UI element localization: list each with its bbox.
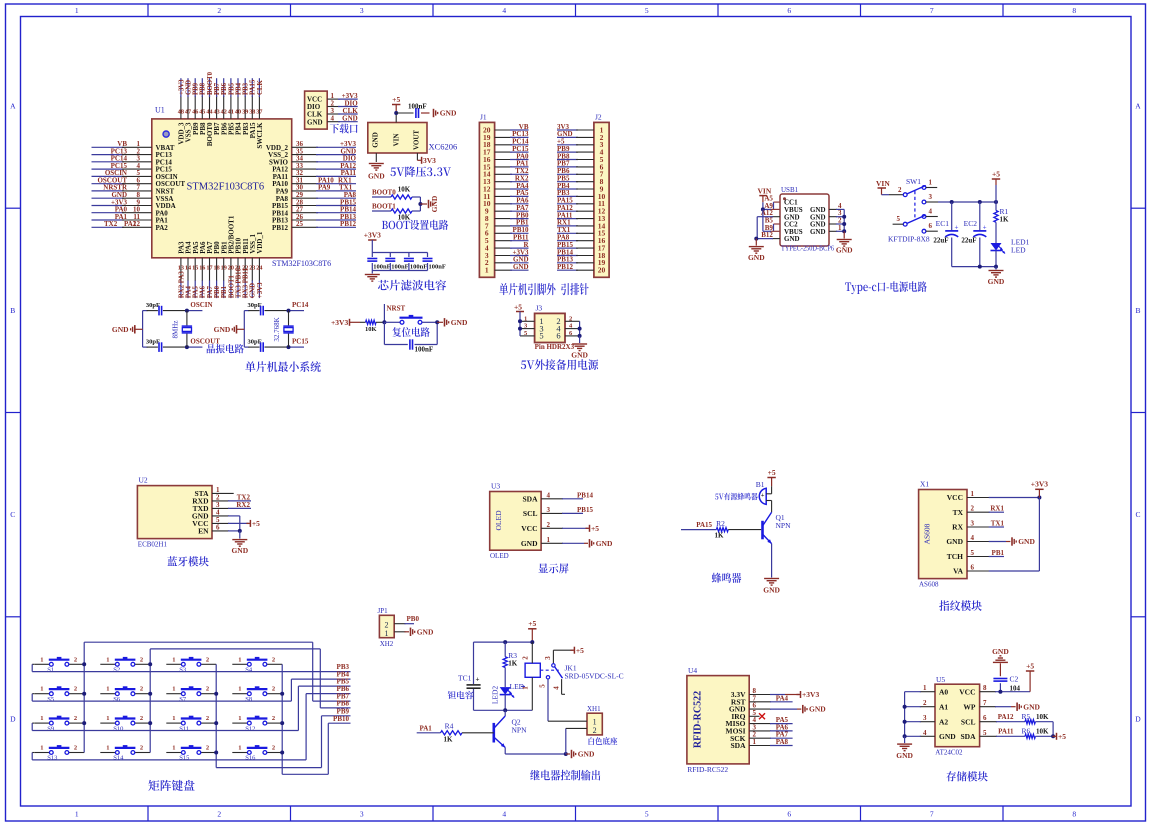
ground USB1 left	[748, 239, 765, 262]
ground typec	[988, 267, 1005, 286]
svg-text:5: 5	[539, 331, 543, 341]
svg-text:2: 2	[522, 656, 530, 660]
ground buzzer	[763, 544, 780, 595]
svg-text:2: 2	[272, 715, 275, 722]
svg-text:S11: S11	[179, 725, 189, 732]
svg-text:GND: GND	[596, 539, 613, 548]
U5 left pins 1-4	[905, 684, 935, 737]
svg-text:19: 19	[221, 265, 227, 272]
svg-text:GND: GND	[1023, 702, 1040, 711]
svg-text:PC14: PC14	[292, 301, 309, 309]
svg-text:PA6: PA6	[200, 286, 207, 299]
wire SW1 pin3 to rail	[938, 200, 998, 204]
USB1 pin B12 GND	[754, 231, 780, 241]
svg-text:S4: S4	[245, 667, 253, 674]
svg-text:6: 6	[787, 6, 791, 15]
USB1 pin B5 CC2	[765, 217, 780, 232]
svg-text:S13: S13	[47, 755, 57, 762]
U1 pin 28 PB15 (right)	[272, 198, 356, 210]
ground relay	[566, 750, 595, 759]
label 5V active buzzer	[715, 493, 758, 500]
svg-text:PB12: PB12	[340, 220, 356, 228]
svg-text:2: 2	[206, 715, 209, 722]
svg-text:XH1: XH1	[587, 705, 601, 713]
U1 pin 37 SWCLK (top)	[256, 78, 264, 148]
svg-text:B: B	[10, 306, 15, 315]
svg-text:+: +	[955, 224, 959, 232]
svg-text:+3V3: +3V3	[257, 282, 264, 298]
svg-text:2: 2	[206, 686, 209, 693]
U1 pin 10 PA0 (left)	[92, 206, 169, 218]
svg-text:PA11: PA11	[998, 728, 1014, 736]
IC X1 AS608 fingerprint	[919, 480, 967, 589]
svg-text:+5: +5	[392, 95, 400, 104]
svg-text:44: 44	[206, 109, 212, 116]
svg-text:TX: TX	[953, 508, 964, 517]
svg-text:23: 23	[249, 265, 255, 272]
U2 pin 5 VCC to +5	[212, 516, 260, 528]
J2 pin 14 net RX1	[557, 219, 606, 231]
J1 pin 20 net VB	[483, 123, 529, 135]
U1 pin 34 SWIO (right)	[269, 155, 357, 167]
svg-text:6: 6	[929, 222, 933, 230]
capacitor TC1 tantalum	[458, 642, 481, 710]
svg-text:41: 41	[228, 109, 234, 116]
ground crystal	[214, 325, 245, 334]
connector J3 Pin HDR2X3	[535, 304, 565, 343]
IC U5 AT24C02	[935, 675, 980, 757]
svg-text:2: 2	[206, 745, 209, 752]
svg-text:VCC: VCC	[947, 493, 963, 502]
svg-text:1: 1	[522, 686, 530, 690]
svg-text:JP1: JP1	[378, 607, 389, 615]
X1 pin 5 TCH net PB1	[967, 549, 1004, 557]
svg-text:2: 2	[140, 656, 143, 663]
U1 pin 9 VDDA (left)	[92, 198, 176, 210]
U1 pin 40 PB4 (top)	[235, 78, 243, 135]
svg-text:1K: 1K	[444, 736, 454, 744]
svg-text:RFID-RC522: RFID-RC522	[693, 691, 704, 748]
svg-text:U2: U2	[139, 476, 148, 485]
svg-text:1: 1	[106, 656, 109, 663]
svg-text:1: 1	[40, 745, 43, 752]
svg-text:4: 4	[502, 810, 506, 819]
svg-text:GND: GND	[250, 283, 257, 298]
svg-text:6: 6	[556, 331, 560, 341]
svg-text:SDA: SDA	[730, 741, 746, 750]
svg-text:2: 2	[547, 521, 551, 529]
svg-text:S12: S12	[245, 725, 255, 732]
svg-text:TX1: TX1	[991, 520, 1005, 528]
svg-text:GND: GND	[231, 546, 248, 555]
svg-text:PB1: PB1	[992, 549, 1005, 557]
wire contact5 to XH1 pin1	[548, 679, 587, 721]
switch S3	[166, 656, 216, 673]
resistor R1 1K	[994, 202, 1009, 224]
svg-text:+5: +5	[591, 524, 599, 533]
J1 pin 8 net PB0	[485, 211, 529, 223]
svg-text:TX3 PB10: TX3 PB10	[235, 267, 242, 298]
title buzzer	[712, 573, 742, 583]
svg-text:VCC: VCC	[959, 687, 975, 696]
JP1 pin 1 to ground	[394, 627, 434, 636]
svg-text:PB12: PB12	[557, 263, 573, 271]
U1 pin 38 PA15 (top)	[249, 78, 257, 138]
crystal circuit rail	[143, 311, 148, 348]
svg-text:S6: S6	[113, 696, 121, 703]
svg-text:R4: R4	[445, 722, 454, 731]
reset push button	[382, 315, 437, 324]
U4 pin 5 IRQ no connect	[749, 709, 765, 720]
svg-text:A1: A1	[939, 702, 948, 711]
switch S1	[34, 656, 84, 673]
label Pin HDR2X3	[535, 343, 575, 351]
U4 pin 1 SDA net PA8	[749, 738, 792, 746]
switch S16	[232, 745, 282, 762]
svg-text:3: 3	[360, 810, 364, 819]
J1 pin 19 net PC13	[483, 130, 529, 142]
J2 pin 11 net PA15	[557, 197, 605, 209]
svg-text:CLK: CLK	[257, 80, 264, 95]
capacitor 100nF filter 2	[385, 253, 408, 271]
svg-text:2: 2	[140, 686, 143, 693]
svg-text:5: 5	[983, 729, 987, 737]
svg-text:47: 47	[185, 109, 191, 116]
J2 pin 9 net PB4	[557, 182, 604, 194]
relay bottom rail	[474, 708, 533, 712]
svg-text:2: 2	[74, 656, 77, 663]
svg-text:2: 2	[898, 186, 902, 194]
J1 pin 18 net PC14	[483, 138, 529, 150]
U4 pin 8 3.3V to +3V3	[749, 687, 819, 699]
svg-text:30pF: 30pF	[146, 302, 160, 309]
svg-text:42: 42	[221, 109, 227, 116]
svg-text:PA15: PA15	[696, 521, 712, 529]
switch S12	[232, 715, 282, 732]
svg-text:S15: S15	[179, 755, 189, 762]
crystal circuit rail	[244, 311, 249, 348]
IC U4 RFID-RC522	[687, 666, 749, 774]
svg-text:PA8: PA8	[776, 738, 789, 746]
title reset circuit	[392, 327, 429, 337]
svg-text:XC6206: XC6206	[429, 141, 458, 151]
svg-text:B1: B1	[756, 480, 765, 489]
svg-text:1: 1	[929, 179, 933, 187]
svg-text:PA15: PA15	[250, 79, 257, 95]
svg-text:KFTDIP-8X8: KFTDIP-8X8	[888, 235, 930, 244]
svg-text:1K: 1K	[1000, 216, 1010, 224]
ground J3	[571, 336, 588, 360]
svg-text:40: 40	[235, 109, 241, 116]
U1 pin 22 PB11 (bottom)	[242, 238, 250, 298]
U1 pin 16 PA6 (bottom)	[199, 241, 207, 298]
U1 pin 1 VBAT (left)	[92, 140, 175, 152]
U1 pin 5 OSCIN (left)	[92, 169, 178, 181]
title matrix keyboard	[148, 780, 194, 791]
power +5 relay contact	[570, 646, 584, 655]
svg-text:1: 1	[753, 738, 757, 746]
J3 pin 5 wire left	[520, 330, 535, 337]
U1 pin 41 PB5 (top)	[228, 78, 236, 135]
svg-text:24: 24	[256, 265, 262, 272]
svg-text:30pF: 30pF	[146, 339, 160, 346]
net label OSCIN	[185, 301, 213, 313]
svg-text:S8: S8	[245, 696, 252, 703]
svg-text:17: 17	[206, 265, 212, 272]
svg-text:7: 7	[930, 6, 934, 15]
U1 pin 17 PA7 (bottom)	[206, 241, 214, 298]
U2 pin 6 EN	[212, 523, 242, 533]
wire +5 node to VIN	[394, 111, 429, 123]
keyboard row net PB6	[32, 685, 350, 760]
svg-text:+: +	[761, 492, 765, 499]
svg-text:X1: X1	[920, 480, 929, 489]
crystal 32.768K	[273, 311, 294, 348]
svg-text:5: 5	[539, 684, 547, 688]
J1 pin 10 net PA6	[483, 197, 529, 209]
power +5 typec	[992, 169, 1000, 202]
title relay control output	[530, 770, 600, 781]
IC XC6206 regulator	[368, 123, 458, 154]
net label BOOT0	[372, 189, 396, 198]
svg-text:AS608: AS608	[919, 581, 939, 589]
svg-text:1K: 1K	[715, 532, 725, 540]
svg-text:4: 4	[923, 729, 927, 737]
svg-text:1: 1	[75, 810, 79, 819]
svg-text:4: 4	[971, 534, 975, 542]
svg-text:RX: RX	[952, 523, 963, 532]
title BOOT setting circuit	[382, 220, 448, 230]
svg-text:+5: +5	[514, 303, 522, 312]
svg-text:S3: S3	[179, 667, 186, 674]
switch S4	[232, 656, 282, 673]
U1 pin 20 PB2/BOOT1 (bottom)	[228, 215, 236, 298]
svg-text:PB9: PB9	[193, 82, 200, 95]
X1 pin 3 RX net TX1	[967, 520, 1004, 528]
svg-text:SDA: SDA	[522, 494, 538, 503]
svg-text:TCH: TCH	[947, 552, 963, 561]
J3 left rail	[518, 319, 522, 336]
svg-text:4: 4	[502, 6, 506, 15]
power +3V3 fingerprint	[1031, 480, 1048, 498]
ground BOOT	[429, 195, 440, 212]
svg-text:J3: J3	[536, 304, 543, 313]
U1 pin 46 PB9 (top)	[192, 78, 200, 135]
J1 pin 15 net PA1	[483, 160, 529, 172]
svg-text:2: 2	[140, 745, 143, 752]
svg-text:PC15: PC15	[292, 338, 309, 346]
wire XH1 pin2 to ground rail	[566, 728, 587, 754]
IC U3 OLED display	[490, 482, 541, 561]
J1 pin 1 net GND	[485, 263, 529, 275]
svg-text:100nF: 100nF	[429, 263, 446, 270]
svg-text:U4: U4	[688, 666, 697, 675]
ground USB1 right	[836, 231, 853, 254]
svg-text:+5: +5	[576, 646, 584, 655]
U5 pin 7 WP to ground	[980, 699, 1041, 711]
svg-text:SW1: SW1	[906, 177, 921, 186]
svg-text:RX2: RX2	[236, 501, 250, 509]
net label PC15	[287, 338, 309, 350]
U1 pin 12 PA2 (left)	[92, 220, 169, 232]
switch S7	[166, 686, 216, 703]
svg-text:PB8: PB8	[200, 82, 207, 95]
capacitor 30pF top	[248, 302, 289, 315]
connector J2 header	[594, 113, 609, 278]
svg-text:10K: 10K	[398, 186, 411, 194]
title display	[538, 563, 568, 573]
svg-text:EN: EN	[198, 527, 209, 536]
svg-text:SRD-05VDC-SL-C: SRD-05VDC-SL-C	[565, 671, 624, 680]
U3 pin 1 GND to ground	[541, 536, 613, 548]
svg-text:GND: GND	[368, 172, 385, 181]
IC U2 ECB02H1 bluetooth	[137, 476, 212, 549]
svg-text:PB5: PB5	[228, 82, 235, 95]
svg-text:1: 1	[385, 629, 389, 638]
U1 pin 47 VSS_3 (top)	[185, 78, 193, 142]
svg-text:GND: GND	[1018, 537, 1035, 546]
svg-text:1: 1	[106, 715, 109, 722]
svg-text:8: 8	[1072, 810, 1076, 819]
svg-text:1: 1	[238, 656, 241, 663]
svg-text:1: 1	[172, 686, 175, 693]
USB1 pin A12 GND	[757, 209, 780, 238]
net label PA15 and resistor R2	[681, 519, 761, 540]
U1 pin 25 PB12 (right)	[272, 220, 356, 232]
svg-text:5: 5	[971, 549, 975, 557]
crystal 8MHz	[171, 311, 192, 348]
svg-text:GND: GND	[521, 539, 538, 548]
J2 pin 20 net PB12	[557, 263, 606, 275]
svg-text:2: 2	[74, 715, 77, 722]
svg-text:4: 4	[553, 686, 561, 690]
svg-text:GND: GND	[896, 751, 913, 760]
svg-text:S7: S7	[179, 696, 187, 703]
U1 pin 8 VSSA (left)	[92, 191, 174, 203]
svg-text:RFID-RC522: RFID-RC522	[687, 765, 728, 774]
svg-text:1: 1	[106, 745, 109, 752]
keyboard row net PB4	[32, 671, 350, 701]
svg-text:30pF: 30pF	[248, 339, 262, 346]
svg-text:5: 5	[645, 6, 649, 15]
svg-text:A0: A0	[939, 687, 948, 696]
svg-text:ECB02H1: ECB02H1	[138, 541, 168, 549]
J2 pin 15 net TX1	[557, 226, 606, 238]
USB1 right pins 4..1	[829, 202, 844, 210]
svg-text:2: 2	[593, 726, 597, 735]
U1 pin 13 PA3 (bottom)	[178, 241, 186, 298]
svg-text:GND: GND	[342, 115, 358, 123]
capacitor 30pF top	[146, 302, 187, 315]
svg-text:PA5: PA5	[193, 286, 200, 299]
U1 pin 33 PA12 (right)	[272, 162, 356, 174]
power +5 buzzer	[767, 468, 775, 494]
svg-text:S9: S9	[47, 725, 54, 732]
keyboard column net PB9	[216, 664, 350, 767]
title chip filter caps	[378, 280, 446, 291]
svg-text:2: 2	[272, 656, 275, 663]
svg-text:3: 3	[360, 6, 364, 15]
svg-text:2: 2	[206, 656, 209, 663]
title MCU minimum system	[245, 361, 320, 372]
svg-text:U5: U5	[936, 675, 945, 684]
svg-text:5: 5	[897, 215, 901, 223]
svg-text:PB14: PB14	[577, 491, 593, 499]
svg-text:PB8: PB8	[337, 700, 350, 708]
svg-text:1: 1	[40, 686, 43, 693]
transistor Q2 NPN	[494, 710, 527, 747]
J3 right rail	[578, 321, 582, 338]
svg-text:B: B	[1135, 306, 1140, 315]
switch S2	[100, 656, 150, 673]
resistor R3 1K	[503, 642, 518, 687]
title download port	[330, 124, 358, 134]
svg-text:2: 2	[74, 745, 77, 752]
U1 pin 19 PB1 (bottom)	[220, 241, 228, 298]
J1 pin 11 net PA5	[483, 189, 529, 201]
svg-text:30pF: 30pF	[248, 302, 262, 309]
svg-text:PA7: PA7	[207, 286, 214, 299]
svg-text:S2: S2	[113, 667, 120, 674]
XC6206 VOUT to 3V3	[417, 153, 436, 165]
label tantalum cap	[448, 691, 474, 699]
title fingerprint module	[939, 600, 982, 611]
svg-text:1: 1	[238, 745, 241, 752]
svg-text:GND: GND	[371, 132, 379, 148]
svg-text:GND: GND	[748, 253, 765, 262]
U1 pin 2 PC13 (left)	[92, 147, 173, 159]
svg-text:S16: S16	[245, 755, 256, 762]
power +5 relay	[528, 619, 536, 642]
svg-text:R3: R3	[508, 651, 517, 660]
U4 pin 6 GND	[749, 702, 826, 714]
svg-text:+3V3: +3V3	[331, 318, 348, 327]
power +5 pullups	[1053, 732, 1067, 741]
capacitor 100nF filter 1	[367, 253, 390, 271]
svg-text:8: 8	[983, 684, 987, 692]
J1 pin 12 net PA4	[483, 182, 529, 194]
svg-text:8: 8	[1072, 6, 1076, 15]
svg-text:14: 14	[185, 265, 191, 272]
svg-text:1: 1	[172, 715, 175, 722]
power VIN at USB1	[758, 186, 772, 209]
svg-text:GND: GND	[809, 705, 826, 714]
svg-text:3: 3	[971, 520, 975, 528]
svg-text:8MHz: 8MHz	[171, 321, 179, 339]
svg-text:PB1: PB1	[221, 285, 228, 298]
switch S8	[232, 686, 282, 703]
title MCU pin headers	[499, 283, 588, 295]
svg-text:XH2: XH2	[380, 640, 394, 648]
svg-text:6: 6	[787, 810, 791, 819]
svg-text:22uF: 22uF	[961, 237, 976, 245]
svg-text:PA2: PA2	[156, 224, 169, 232]
U4 pin 3 MOSI net PA6	[749, 723, 792, 731]
J3 pin 3 wire left	[520, 323, 535, 330]
svg-text:20: 20	[598, 266, 606, 275]
svg-text:+5: +5	[992, 169, 1000, 178]
svg-text:2: 2	[272, 686, 275, 693]
svg-text:GND: GND	[185, 80, 192, 95]
IC U1 STM32F103C8T6 body	[152, 106, 331, 268]
relay JK1 coil	[522, 642, 541, 710]
power +5 J3	[514, 303, 524, 322]
svg-text:46: 46	[192, 109, 198, 116]
svg-text:GND: GND	[214, 325, 231, 334]
svg-text:STM32F103C8T6: STM32F103C8T6	[272, 259, 331, 268]
connector J1 header	[479, 113, 494, 278]
svg-text:1: 1	[485, 266, 489, 275]
